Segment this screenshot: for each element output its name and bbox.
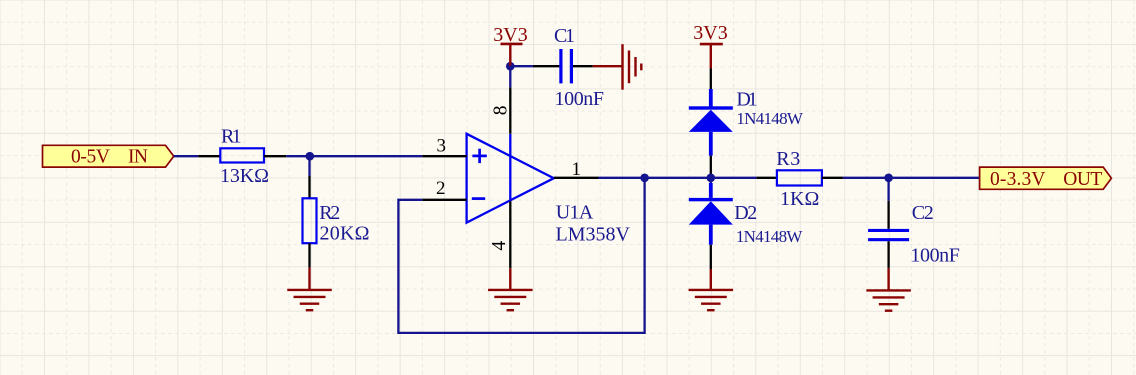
- svg-text:1KΩ: 1KΩ: [780, 188, 819, 210]
- svg-text:2: 2: [436, 178, 446, 199]
- svg-text:R1: R1: [221, 125, 242, 147]
- svg-text:4: 4: [489, 241, 510, 251]
- svg-text:3V3: 3V3: [493, 24, 527, 46]
- svg-text:13KΩ: 13KΩ: [220, 165, 269, 187]
- svg-text:100nF: 100nF: [555, 88, 605, 110]
- svg-text:1N4148W: 1N4148W: [736, 227, 803, 246]
- svg-text:3V3: 3V3: [693, 22, 727, 44]
- svg-text:IN: IN: [128, 146, 148, 167]
- svg-text:LM358V: LM358V: [556, 224, 631, 246]
- svg-text:0-5V: 0-5V: [71, 146, 110, 167]
- svg-text:D2: D2: [734, 202, 757, 224]
- svg-text:R2: R2: [319, 202, 340, 224]
- svg-text:3: 3: [437, 135, 447, 156]
- svg-text:0-3.3V: 0-3.3V: [990, 169, 1046, 190]
- svg-text:C2: C2: [912, 202, 934, 224]
- svg-text:8: 8: [490, 106, 511, 116]
- svg-text:C1: C1: [554, 25, 575, 47]
- svg-text:20KΩ: 20KΩ: [320, 222, 370, 244]
- svg-text:D1: D1: [736, 88, 757, 110]
- svg-text:R3: R3: [776, 148, 800, 170]
- svg-text:1: 1: [572, 159, 582, 180]
- svg-text:U1A: U1A: [556, 202, 594, 224]
- svg-text:OUT: OUT: [1063, 169, 1102, 190]
- svg-text:100nF: 100nF: [910, 245, 960, 267]
- svg-text:1N4148W: 1N4148W: [736, 109, 803, 128]
